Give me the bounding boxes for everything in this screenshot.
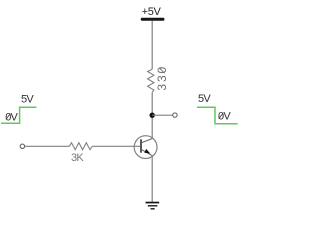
svg-text:3K: 3K bbox=[71, 152, 84, 164]
svg-text:5V: 5V bbox=[198, 93, 211, 105]
svg-text:330: 330 bbox=[155, 65, 169, 91]
svg-text:+5V: +5V bbox=[142, 6, 162, 18]
svg-text:5V: 5V bbox=[21, 94, 34, 106]
